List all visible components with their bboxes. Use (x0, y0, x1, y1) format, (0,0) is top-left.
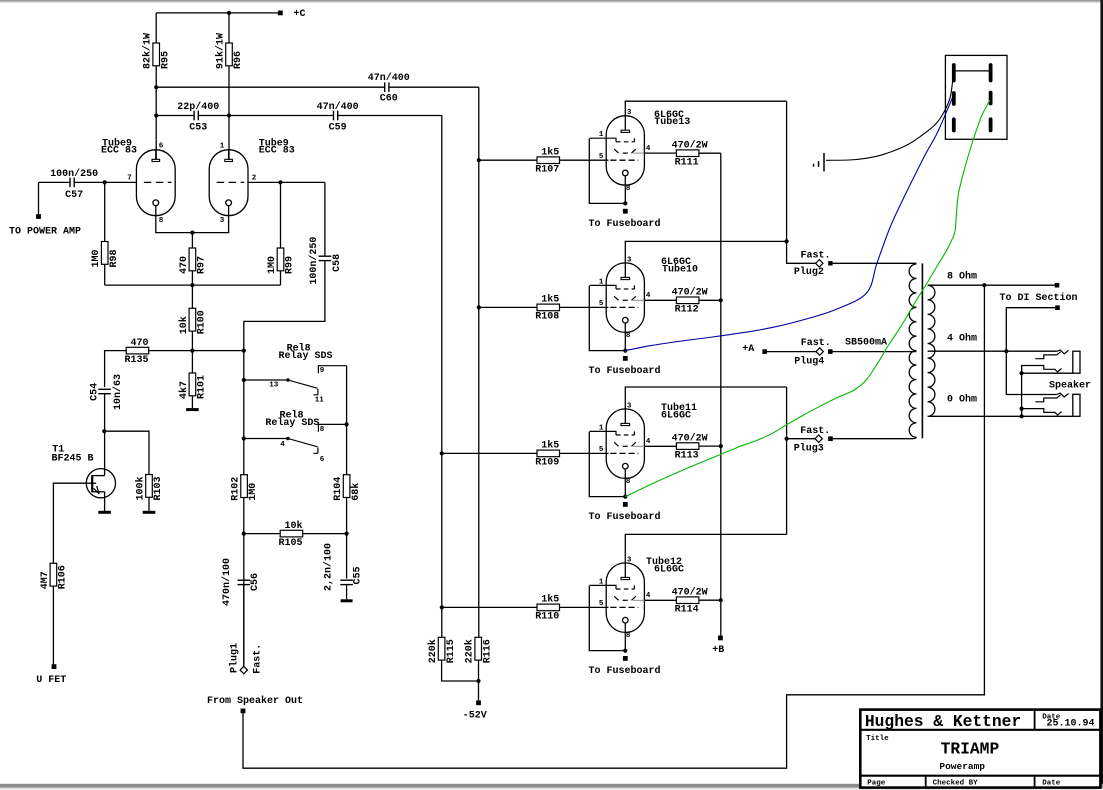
wire jack2 tip feed (1006, 351, 1056, 394)
capacitor C60 (368, 72, 410, 104)
svg-text:From Speaker Out: From Speaker Out (207, 695, 303, 707)
wire R99 bottom (280, 271, 282, 285)
svg-text:R107: R107 (535, 164, 559, 175)
svg-text:8 Ohm: 8 Ohm (947, 270, 977, 282)
wire feedback (243, 285, 984, 768)
junction cathode (623, 649, 627, 653)
junction drive R108 (477, 305, 481, 309)
wire R95 bottom to plate (155, 66, 157, 160)
wire grid feed (479, 306, 537, 308)
terminal 8 Ohm (1055, 283, 1060, 288)
junction feedback tap (982, 283, 986, 287)
junction R98 top (103, 180, 107, 184)
svg-text:Title: Title (866, 735, 889, 743)
svg-text:10k: 10k (284, 520, 302, 532)
Plug3 labels (794, 426, 831, 455)
junction cathode (623, 349, 627, 353)
wire Plug4 to primary CT (833, 351, 917, 353)
svg-text:C56: C56 (250, 573, 261, 591)
terminal To DI Section (1055, 305, 1060, 310)
junction R99 top (278, 180, 282, 184)
wire bottom bus (105, 284, 281, 286)
svg-text:3: 3 (627, 256, 632, 264)
terminal To Fuseboard (623, 502, 628, 507)
svg-text:470/2W: 470/2W (672, 586, 708, 598)
terminal TO POWER AMP (36, 214, 41, 219)
wire R135 left (105, 351, 127, 388)
svg-text:C59: C59 (329, 122, 347, 133)
connector pins (954, 65, 991, 131)
wire pin1 net (589, 432, 625, 497)
svg-text:U FET: U FET (36, 675, 66, 686)
junction R100 bottom (190, 349, 194, 353)
svg-text:TRIAMP: TRIAMP (941, 739, 1000, 758)
svg-text:4M7: 4M7 (40, 571, 51, 589)
svg-text:ECC 83: ECC 83 (101, 146, 137, 157)
wire T1 gate (53, 483, 86, 563)
svg-text:+B: +B (712, 645, 724, 656)
wire cathode (624, 469, 626, 497)
resistor R112 (672, 287, 708, 316)
wire grid feed (479, 159, 537, 161)
svg-text:Date: Date (1042, 780, 1061, 788)
svg-text:6: 6 (320, 456, 325, 464)
terminal +C (278, 11, 283, 16)
junction jack2 sleeve (1020, 414, 1024, 418)
tube labels (661, 257, 698, 275)
Plug4 labels (794, 338, 830, 367)
terminal Plug3 to transformer (828, 436, 833, 441)
resistor R108 (535, 294, 559, 323)
svg-text:1: 1 (599, 131, 604, 139)
wire R100 top (191, 285, 193, 308)
svg-text:6L6GC: 6L6GC (661, 410, 691, 421)
wire black curve to mains (826, 80, 953, 160)
junction DI node (1004, 349, 1008, 353)
capacitor C54 (89, 374, 124, 410)
junction R104 bottom (345, 532, 349, 536)
svg-text:6: 6 (159, 143, 164, 151)
wire plate2 to C59 (229, 115, 334, 117)
svg-text:10k: 10k (178, 316, 190, 334)
svg-text:3: 3 (220, 217, 225, 225)
wire down to terminal (38, 182, 40, 214)
svg-text:Fast.: Fast. (801, 338, 831, 349)
terminal Plug2 to transformer (828, 261, 832, 265)
svg-text:Fast.: Fast. (800, 426, 830, 437)
junction bottom bus (190, 283, 194, 287)
wire relay1 feed (244, 379, 288, 381)
svg-text:Page: Page (867, 780, 886, 788)
svg-text:C55: C55 (353, 566, 364, 584)
wire T1 source (104, 492, 106, 511)
svg-text:R115: R115 (446, 639, 457, 663)
wire pin4 lead (644, 299, 676, 301)
wire C58 top lead (324, 182, 326, 256)
junction Plug3 node (785, 437, 789, 441)
resistor R106 (40, 563, 69, 589)
junction B rail R114 (719, 598, 723, 602)
svg-text:8: 8 (159, 217, 164, 225)
wire R113 out (699, 445, 721, 447)
wire cathode V9a (156, 206, 193, 233)
wire pin3 Tube10 (625, 241, 786, 277)
svg-text:11: 11 (315, 397, 325, 405)
svg-text:1k5: 1k5 (541, 294, 559, 306)
resistor R102 (231, 475, 260, 501)
wire R98 top (104, 182, 106, 241)
wire pin3 Tube13 (625, 101, 786, 130)
wire jack ground rail (1021, 366, 1023, 417)
svg-text:2: 2 (252, 175, 257, 183)
wire R96 bottom to plate (228, 66, 230, 160)
terminal +B (718, 636, 723, 641)
svg-text:Plug1: Plug1 (229, 643, 241, 673)
svg-text:SB500mA: SB500mA (845, 337, 887, 348)
wire plate1 to C60 (156, 86, 385, 88)
svg-text:C58: C58 (332, 254, 343, 272)
junction plate V9a row1 (154, 85, 158, 89)
svg-text:R96: R96 (233, 51, 244, 69)
wire pin4 lead (644, 599, 676, 601)
terminal U FET (52, 664, 57, 669)
terminal To Fuseboard (623, 209, 628, 214)
wire pin5 lead (560, 306, 609, 308)
junction jack1 sleeve (1020, 371, 1024, 375)
svg-text:8: 8 (320, 426, 325, 434)
ground T1 source (98, 511, 111, 514)
wire pin1 net (589, 586, 625, 651)
svg-text:-52V: -52V (463, 710, 487, 721)
wire R100 bottom (191, 331, 193, 351)
wire relay2 feed (244, 438, 288, 440)
plug Plug4 Fast connector (816, 348, 823, 355)
frame bottom edge (0, 784, 1103, 790)
svg-text:R116: R116 (482, 639, 493, 663)
svg-text:470: 470 (179, 256, 190, 274)
tube labels (661, 402, 697, 421)
svg-text:R106: R106 (58, 565, 69, 589)
wire C59 to corner (338, 115, 442, 117)
wire R112 out (699, 299, 721, 301)
plug Plug2 Fast connector (816, 260, 823, 267)
tube Tube12 6L6GC (589, 563, 644, 633)
svg-text:R99: R99 (285, 256, 296, 274)
svg-text:4: 4 (280, 441, 285, 449)
capacitor C59 (317, 101, 359, 134)
wire 8 Ohm tap (929, 284, 1055, 286)
svg-text:R101: R101 (197, 375, 208, 399)
Plug2 labels (794, 250, 831, 278)
svg-text:4: 4 (646, 292, 651, 300)
frame right edge (1100, 0, 1103, 790)
svg-text:To Fuseboard: To Fuseboard (589, 665, 661, 677)
relay Rel8 lower labels (265, 409, 319, 429)
tube labels (646, 556, 684, 575)
svg-text:Plug2: Plug2 (794, 266, 824, 278)
svg-text:To Fuseboard: To Fuseboard (589, 365, 661, 377)
resistor R115 (427, 637, 457, 663)
svg-text:R98: R98 (109, 249, 120, 267)
junction cathode (623, 201, 627, 205)
resistor R135 (124, 338, 148, 366)
wire +A to Plug4 (767, 351, 816, 353)
svg-text:1k5: 1k5 (541, 440, 559, 452)
junction relay right (345, 422, 349, 426)
wire C58 bottom (244, 261, 325, 351)
wire C60 line vertical (478, 87, 480, 637)
svg-text:1M0: 1M0 (267, 256, 278, 274)
ground R101 (186, 408, 199, 411)
svg-text:470/2W: 470/2W (672, 432, 708, 444)
svg-text:68k: 68k (350, 483, 362, 501)
wire pin3 Tube11 (625, 387, 786, 424)
wire plate1 to C53 (156, 115, 194, 117)
wire Plug3 to primary bottom (833, 438, 912, 440)
wire R116 bottom (478, 660, 480, 700)
wire Plug3 stub (787, 438, 815, 440)
resistor R95 (142, 33, 172, 69)
relay Rel8 upper contact set (286, 366, 346, 395)
svg-text:Poweramp: Poweramp (939, 761, 985, 772)
transistor T1 BF245B (86, 469, 115, 498)
svg-text:3: 3 (627, 109, 632, 117)
svg-text:100n/250: 100n/250 (50, 168, 98, 180)
wire R103 bottom (148, 497, 150, 511)
svg-text:Speaker: Speaker (1049, 380, 1091, 392)
junction C58 line (242, 349, 246, 353)
junction Tube10 plate (785, 239, 789, 243)
terminal Plug4 to fuse (828, 349, 833, 354)
svg-text:R104: R104 (333, 477, 344, 501)
svg-text:1: 1 (220, 143, 225, 151)
connector speaker jack J2 (1022, 393, 1080, 416)
transformer TR1 core (921, 263, 923, 438)
svg-text:13: 13 (269, 382, 279, 390)
resistor R96 (215, 33, 245, 69)
wire T1 drain (104, 431, 106, 475)
resistor R98 (91, 242, 120, 268)
title block frame (860, 710, 1100, 788)
svg-text:Plug4: Plug4 (794, 355, 824, 367)
svg-text:100n/250: 100n/250 (308, 237, 320, 285)
wire DI section (1006, 308, 1055, 352)
svg-text:Checked BY: Checked BY (933, 780, 979, 788)
wire C54 bottom (104, 394, 106, 432)
svg-text:Relay SDS: Relay SDS (265, 417, 319, 429)
wire R97 bottom (191, 271, 193, 285)
junction jack2 contact (1020, 407, 1024, 411)
svg-text:47n/400: 47n/400 (368, 72, 410, 84)
junction R96 top (227, 11, 231, 15)
svg-text:+C: +C (294, 9, 306, 20)
svg-text:3: 3 (627, 402, 632, 410)
wire drain node to R103 (104, 431, 149, 474)
svg-text:47n/400: 47n/400 (317, 101, 359, 113)
svg-text:Fast.: Fast. (252, 644, 263, 674)
svg-text:R108: R108 (535, 312, 559, 323)
resistor R100 (178, 308, 208, 334)
junction drive R107 (477, 158, 481, 162)
wire R101 bottom (191, 396, 193, 408)
svg-text:8: 8 (626, 478, 631, 486)
Plug1 labels (229, 643, 264, 674)
svg-text:8: 8 (626, 632, 631, 640)
wire plug rail top (787, 101, 816, 263)
svg-text:C60: C60 (380, 93, 398, 104)
junction -52V node (476, 679, 480, 683)
wire C53 to plate2 (198, 115, 229, 117)
wire B plus rail (720, 153, 722, 635)
svg-text:7: 7 (127, 175, 132, 183)
svg-text:470/2W: 470/2W (672, 139, 708, 151)
wire pin4 lead (644, 445, 676, 447)
wire C60 to corner (389, 86, 479, 88)
resistor R110 (535, 594, 559, 623)
wire R99 top (280, 182, 282, 248)
connector mains block (945, 55, 1007, 139)
svg-text:8: 8 (626, 332, 631, 340)
svg-text:R112: R112 (675, 305, 699, 316)
svg-text:1: 1 (599, 424, 604, 432)
svg-text:R110: R110 (535, 612, 559, 623)
resistor R101 (178, 373, 208, 399)
svg-text:470n/100: 470n/100 (221, 558, 233, 606)
tube labels (654, 110, 690, 128)
wire C55 bottom (346, 585, 348, 600)
wire green curve (625, 100, 990, 497)
tube Tube11 6L6GC (589, 409, 644, 479)
T1 labels (52, 444, 94, 464)
terminal -52V (476, 700, 481, 705)
wire cathode (624, 623, 626, 651)
svg-text:R113: R113 (675, 450, 699, 461)
wire R115 bottom (442, 660, 479, 681)
svg-text:C54: C54 (89, 383, 100, 401)
frame top edge (0, 0, 1103, 3)
resistor R104 (333, 475, 362, 501)
svg-text:1M0: 1M0 (248, 483, 259, 501)
svg-text:100k: 100k (135, 476, 147, 500)
svg-text:1: 1 (599, 578, 604, 586)
resistor R111 (672, 139, 708, 168)
junction relay1 feed (242, 378, 246, 382)
wire R135 right (149, 350, 244, 352)
junction B rail R113 (719, 444, 723, 448)
svg-text:470: 470 (130, 338, 148, 349)
svg-text:91k/1W: 91k/1W (215, 33, 227, 69)
svg-text:Fast.: Fast. (801, 250, 831, 261)
capacitor C56 (221, 558, 261, 606)
svg-text:R100: R100 (197, 310, 208, 334)
svg-text:R111: R111 (675, 157, 699, 168)
svg-text:22p/400: 22p/400 (177, 101, 219, 113)
capacitor C55 (323, 543, 364, 591)
svg-text:To Fuseboard: To Fuseboard (589, 511, 661, 523)
wire pin1 net (589, 286, 625, 351)
svg-text:Relay SDS: Relay SDS (279, 350, 333, 362)
wire C57 to grid V9a (74, 181, 136, 183)
tube Tube13 6L6GC (589, 116, 644, 186)
svg-text:2,2n/100: 2,2n/100 (323, 543, 335, 591)
resistor R116 (464, 637, 494, 663)
jack plug icon (813, 153, 824, 172)
wire grid feed (442, 606, 537, 608)
resistor R103 (135, 475, 165, 501)
resistor R114 (672, 586, 708, 615)
svg-text:TO POWER AMP: TO POWER AMP (9, 226, 81, 237)
ground C55 (341, 599, 353, 602)
svg-text:1k5: 1k5 (541, 594, 559, 606)
resistor R107 (535, 146, 559, 175)
capacitor C53 (177, 101, 219, 134)
svg-text:4: 4 (646, 145, 651, 153)
wire pin1 net (589, 139, 625, 204)
resistor R105 (278, 520, 302, 549)
relay Rel8 upper labels (279, 342, 333, 362)
wire C56 bottom (243, 585, 245, 667)
wire cathode (624, 323, 626, 351)
wire relay left rail (243, 351, 245, 667)
wire plug rail bottom (786, 387, 788, 534)
capacitor C57 (50, 168, 98, 201)
svg-text:9: 9 (320, 367, 325, 375)
tube V9a labels (101, 138, 137, 157)
wire grid feed (442, 452, 537, 454)
relay Rel8 lower contact set (286, 424, 346, 453)
wire R106 bottom (52, 586, 54, 664)
junction cathode (623, 495, 627, 499)
wire pin3 Tube12 (625, 534, 786, 577)
wire R98 bottom (104, 264, 106, 285)
terminal +A (762, 349, 767, 354)
svg-text:4 Ohm: 4 Ohm (947, 332, 977, 344)
junction B rail R112 (719, 298, 723, 302)
svg-text:4: 4 (646, 438, 651, 446)
wire pin5 lead (560, 606, 609, 608)
svg-text:3: 3 (627, 556, 632, 564)
junction plate V9b row2 (227, 113, 231, 117)
junction drain node (102, 429, 106, 433)
junction drive R110 (440, 605, 444, 609)
wire R114 out (699, 599, 721, 601)
transformer TR1 primary (909, 264, 916, 437)
tube V9b labels (259, 138, 295, 157)
junction cathode R97 (190, 231, 194, 235)
svg-text:Hughes & Kettner: Hughes & Kettner (865, 712, 1021, 731)
junction R102 bottom (242, 532, 246, 536)
terminal From Speaker Out (241, 709, 246, 714)
wire 0 Ohm tap (929, 415, 1022, 417)
svg-text:R102: R102 (231, 477, 242, 501)
svg-text:220k: 220k (427, 639, 439, 663)
svg-text:6L6GC: 6L6GC (654, 564, 684, 575)
wire relay right rail (346, 366, 348, 579)
junction plate V9a row2 (154, 113, 158, 117)
wire pin4 lead (644, 152, 676, 154)
wire 4 Ohm tap (928, 350, 1057, 352)
svg-text:1M0: 1M0 (91, 249, 102, 267)
resistor R99 (267, 248, 296, 274)
wire cathode V9b (192, 206, 228, 233)
wire C57 left (39, 181, 71, 183)
wire connector jumper (954, 70, 991, 72)
junction relay2 feed (242, 436, 246, 440)
wire R105 right (303, 533, 347, 535)
svg-text:470/2W: 470/2W (672, 287, 708, 299)
svg-text:4k7: 4k7 (178, 381, 190, 399)
svg-text:25.10.94: 25.10.94 (1047, 719, 1095, 730)
